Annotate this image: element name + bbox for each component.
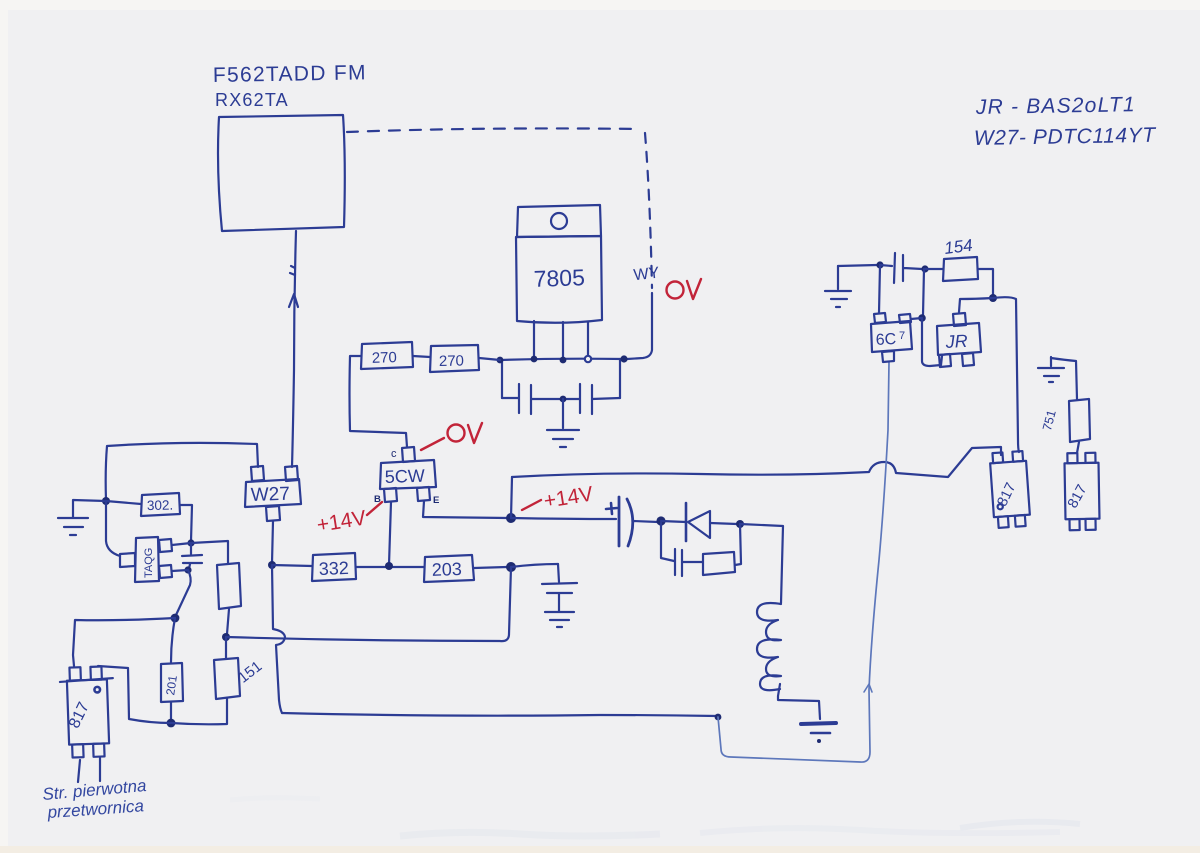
optocoupler OC1 817 body [59, 666, 115, 758]
junction dot node line left [497, 357, 504, 364]
diode D3 JR body [937, 323, 981, 355]
svg-text:270: 270 [439, 353, 464, 370]
wire R1 left down to 5CW collector [350, 356, 408, 447]
capacitor C5 curved plate [627, 499, 633, 546]
svg-text:F562TADD FM: F562TADD FM [213, 61, 367, 87]
wire junction A left then down to optocoupler [73, 618, 175, 666]
wire diode to right junction [710, 523, 737, 524]
transistor U3 6C7 top-left pin [874, 313, 886, 323]
svg-text:5CW: 5CW [384, 466, 425, 487]
open circle pin3 [585, 356, 591, 362]
wire riser from +14V node up to rail [511, 477, 512, 518]
junction dot diode right [736, 520, 744, 528]
resistor R7 box 201 [161, 663, 183, 702]
riser left to cap line [501, 360, 503, 398]
capacitor C1 (left, under 7805) [502, 384, 561, 414]
wire top-left long run to W27 left pin [106, 443, 258, 500]
label +14V at node (red) [522, 482, 595, 512]
wire junction to R10 [925, 268, 943, 270]
transistor W27 bottom pin [266, 506, 280, 521]
wire R7 bottom to junction C [170, 702, 172, 720]
diode D1 TAQG bottom right pin [159, 565, 172, 578]
diode D3 bottom-right pin [962, 353, 974, 366]
ground dot [817, 739, 821, 743]
svg-text:JR: JR [944, 331, 968, 352]
label 0V at 5CW (red) [421, 423, 482, 450]
junction dot TAQG top node [187, 539, 194, 546]
resistor R2 box 270 [430, 345, 479, 372]
wire 302 right down to TAQG node [180, 505, 192, 541]
resistor R10 box 154 [943, 257, 978, 281]
regulator U2 body [516, 236, 602, 323]
wire R1-R2 [413, 356, 430, 357]
wire junction to ground left [73, 500, 106, 517]
wire junction down then to JR bottom-left pin [922, 318, 942, 366]
capacitor C5 polarized plus sign [606, 503, 617, 514]
wire +14V rail going right (hops over vertical wire) [512, 447, 1001, 477]
junction dot bottom run [715, 714, 722, 721]
optocoupler OC2 817 body [989, 451, 1030, 528]
resistor R3 box 332 [312, 553, 356, 581]
junction dot under C4 [184, 566, 191, 573]
junction dot pin1 [531, 356, 538, 363]
transistor Q1 base pin [384, 488, 397, 502]
wire junction B right to lower node [226, 567, 511, 641]
optocoupler OC1 bottom lead stubs [78, 758, 100, 782]
dashed wire corner going down [645, 133, 652, 288]
junction dot left net [102, 497, 110, 505]
label 0V output (red) [667, 279, 702, 299]
junction dot diode left [656, 516, 665, 525]
resistor R4 box 203 [424, 555, 474, 582]
tick marks on module lead [290, 266, 295, 275]
ground top right block [825, 266, 851, 307]
wire WY node down to regulator output [627, 293, 652, 359]
transistor Q1 5CW collector pin [402, 447, 415, 462]
wire junction A down to R7 201 [171, 618, 175, 662]
transistor Q1 emitter pin [417, 487, 430, 501]
junction dot C7 left [876, 261, 883, 268]
wire 203 to lower node [474, 567, 507, 568]
wire C7 right junction down [923, 269, 924, 315]
wire C7 left junction down to 6C7 [879, 265, 880, 313]
wire bottom-left rail return (light) [718, 362, 889, 762]
junction dot 6C7 top right [918, 314, 926, 322]
wire long bottom horizontal run [282, 713, 717, 716]
optocoupler OC3 817 body [1064, 453, 1100, 531]
resistor R5 box 302 [141, 493, 180, 516]
junction dot C7 right [921, 265, 928, 272]
ground under 7805 [547, 399, 579, 447]
svg-text:c: c [391, 448, 397, 460]
wire top-right pin to junction [911, 318, 922, 319]
wire node left to JR top pin [959, 298, 993, 312]
diode D2 triangle [688, 511, 710, 538]
transistor U3 bottom pin [882, 351, 894, 362]
wire R2 to node line [479, 358, 500, 360]
capacitor C3 (under node) [542, 564, 577, 611]
wire 332 to 203 [356, 566, 424, 568]
wire R9 up to diode-right junction [735, 524, 741, 565]
wire junction down with right-side hop over horizontal wire [272, 565, 285, 713]
wire C5 to diode node [633, 521, 658, 522]
wire junction down to TAQG left pin [106, 501, 120, 556]
svg-text:332: 332 [318, 558, 349, 579]
transistor W27 body [245, 479, 301, 507]
junction dot pin2 [560, 357, 567, 364]
svg-text:RX62TA: RX62TA [215, 90, 289, 110]
diode D1 TAQG body [135, 537, 159, 582]
svg-text:7805: 7805 [533, 264, 585, 292]
resistor R8 box 151 [214, 658, 240, 699]
label +14V at base (red) [315, 502, 382, 537]
capacitor C4 beside TAQG [182, 543, 202, 569]
junction dot 0V node [620, 355, 627, 362]
transistor U3 6C7 top-right pin [899, 314, 911, 323]
svg-text:JR - BAS2oLT1: JR - BAS2oLT1 [975, 93, 1136, 119]
capacitor C2 (right, under 7805) [565, 384, 620, 414]
wire base down to 332/203 row [389, 502, 391, 565]
wire R10 right then down [978, 269, 993, 295]
regulator pin 1 (input) [533, 321, 535, 358]
resistor R9 snubber box [703, 552, 735, 575]
wire junction C right to 151 bottom [171, 698, 227, 724]
wire diagonal down-left to junction A [176, 570, 191, 615]
node line under 7805 [500, 359, 624, 360]
svg-text:203: 203 [431, 559, 462, 580]
wire 151 top to junction B [225, 637, 227, 658]
diode D1 TAQG left pin [120, 553, 135, 567]
junction dot C [167, 719, 176, 728]
arrow tick on return wire [864, 684, 872, 692]
dashed wire from module to WY [347, 128, 640, 132]
transistor U3 6C7 body [871, 321, 912, 352]
junction dot A [171, 614, 180, 623]
ground right small [1038, 357, 1064, 382]
wire ground to 751 [1051, 358, 1077, 399]
arrowhead on module lead [289, 294, 298, 307]
junction dot gnd leg / cap line [560, 396, 567, 403]
wire junction to diode bar [661, 521, 686, 522]
wire snubber down from diode-left junction [661, 523, 674, 561]
wire emitter to +14V node [423, 501, 508, 518]
wire coil bottom to ground [778, 684, 820, 719]
ground left [58, 518, 88, 535]
regulator U2 hole [551, 213, 567, 229]
regulator U2 7805 tab [517, 205, 601, 237]
capacitor C6 snubber [675, 549, 702, 576]
resistor R1 box 270 [361, 342, 413, 369]
wire W27 bottom pin to junction [272, 521, 273, 563]
junction dot right node [989, 294, 997, 302]
wire node to cap C3 [511, 564, 558, 567]
node +14V junction (big) [506, 513, 516, 523]
ground under C3 [545, 612, 574, 627]
wire optocoupler right pin loop to junction C [98, 666, 171, 723]
svg-text:WY: WY [633, 265, 661, 285]
resistor R6 box (unlabeled) [217, 563, 241, 609]
svg-text:W27: W27 [250, 484, 290, 506]
transistor W27 left top pin [251, 466, 264, 481]
diode D3 top pin [953, 313, 966, 326]
capacitor C5 straight plate [618, 497, 621, 546]
wire +14V node to C5 [511, 518, 616, 519]
svg-text:TAQG: TAQG [143, 548, 155, 578]
svg-text:302.: 302. [147, 498, 174, 513]
svg-text:154: 154 [943, 236, 973, 258]
svg-text:201: 201 [163, 674, 180, 696]
wire junction to 302 [106, 501, 141, 504]
wire module output lead down to W27 [292, 231, 296, 467]
svg-text:270: 270 [372, 349, 398, 367]
ground under coil (heavy) [801, 723, 836, 724]
wire TAQG top pin to node [172, 543, 191, 545]
svg-text:W27- PDTC114YT: W27- PDTC114YT [974, 124, 1158, 150]
capacitor C7 [880, 253, 922, 283]
svg-text:7: 7 [899, 330, 905, 342]
regulator pin 2 (gnd) [562, 322, 564, 359]
diode D1 TAQG top right pin [159, 539, 172, 552]
svg-text:E: E [433, 495, 439, 506]
wire node to R6 top [191, 541, 228, 563]
junction dot W27 bottom [268, 561, 276, 569]
transistor Q1 5CW body [380, 460, 436, 489]
diode D2 cathode bar [685, 503, 688, 541]
wire R6 bottom to junction B [227, 609, 229, 634]
riser right to cap line [619, 359, 621, 398]
junction dot base/row [385, 562, 393, 570]
node lower junction (big) [506, 562, 516, 572]
transistor W27 right top pin [285, 466, 298, 481]
wire diode-right junction to coil [740, 524, 783, 603]
resistor R11 box 751 [1069, 399, 1090, 442]
wire TAQG bottom pin to junction [172, 570, 188, 571]
diode D3 bottom-left pin [939, 354, 951, 367]
svg-text:6C: 6C [875, 331, 896, 349]
inductor L1 coil [757, 603, 781, 690]
regulator pin 3 (output) [587, 322, 589, 355]
module U1 box (receiver module) [218, 115, 345, 231]
wire 751 to OC3 [1077, 442, 1079, 453]
junction dot B [222, 633, 230, 641]
wire ground to cap C7 [838, 265, 877, 266]
wire node right then long down to optocoupler [993, 297, 1019, 452]
wire junction to 332 [272, 565, 312, 566]
